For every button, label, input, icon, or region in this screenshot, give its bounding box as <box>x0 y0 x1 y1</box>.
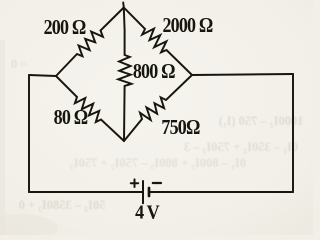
svg-text:0 =: 0 = <box>11 57 28 71</box>
resistor R1 200 ohm (top-left arm) <box>56 8 124 77</box>
label 750 ohm <box>161 117 199 139</box>
battery V1 long plate (positive) <box>142 181 144 203</box>
label 200 ohm <box>44 17 86 39</box>
wire: right node to top-right corner <box>192 74 293 75</box>
svg-text:200 Ω: 200 Ω <box>44 17 86 39</box>
faint bleed-through mark left edge <box>11 57 28 71</box>
svg-text:50I₂ – 3580I₃ + 0: 50I₂ – 3580I₃ + 0 <box>19 198 106 212</box>
label 4 V <box>135 202 160 224</box>
svg-text:750Ω: 750Ω <box>161 117 199 139</box>
svg-text:80 Ω: 80 Ω <box>54 107 88 129</box>
resistor R2 2000 ohm (top-right arm) <box>124 8 192 76</box>
faint bleed-through equation line 1 (mirrored) <box>219 114 304 128</box>
wire: left node to left corner <box>29 75 56 76</box>
wire: bottom rail left of battery <box>29 191 143 193</box>
battery minus sign <box>153 182 161 184</box>
svg-text:4 V: 4 V <box>135 202 160 224</box>
label 80 ohm <box>54 107 88 129</box>
faint bleed-through equation line 2 (mirrored) <box>184 140 298 154</box>
resistor R5 750 ohm (bottom-right arm) <box>124 75 192 141</box>
svg-text:1000I₂ – 750 (I₁): 1000I₂ – 750 (I₁) <box>219 114 304 128</box>
node T apex stub <box>122 3 125 8</box>
battery V1 short plate (negative) <box>148 188 151 196</box>
resistor R4 80 ohm (bottom-left arm) <box>56 76 124 141</box>
svg-text:0I₁ – 350I₂ + 750I₂ – 3: 0I₁ – 350I₂ + 750I₂ – 3 <box>184 140 298 154</box>
faint bleed-through equation line 4 (mirrored) <box>19 198 106 212</box>
resistor R3 800 ohm (middle bridge arm) <box>118 8 131 142</box>
wire: left vertical drop <box>28 75 30 192</box>
label 2000 ohm <box>162 15 212 37</box>
svg-text:0I₁ – 800I₃ + 800I₃ – 750I₂ +: 0I₁ – 800I₃ + 800I₃ – 750I₂ + 750I₃ <box>70 156 246 170</box>
wire: right vertical riser <box>292 74 294 192</box>
faint bleed-through equation line 3 (mirrored) <box>70 156 246 170</box>
battery plus sign <box>131 182 138 184</box>
wire: bottom rail right of battery <box>149 191 293 193</box>
label 800 ohm <box>133 60 175 84</box>
svg-text:800 Ω: 800 Ω <box>133 60 175 84</box>
svg-text:2000 Ω: 2000 Ω <box>162 15 212 37</box>
